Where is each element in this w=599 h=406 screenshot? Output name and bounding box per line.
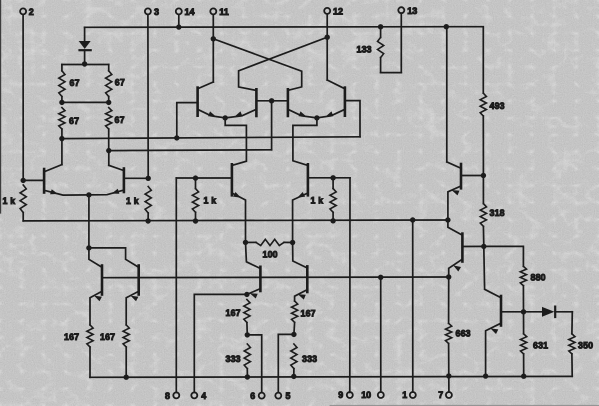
resistor 100 xyxy=(246,239,293,259)
wire Q7 emitter xyxy=(317,109,345,118)
wire input emitters to mirror xyxy=(88,195,90,248)
svg-text:1 k: 1 k xyxy=(204,196,217,206)
wire Q14 emitter xyxy=(448,186,461,220)
wire Q2 base xyxy=(124,177,148,179)
junction left column upper wire xyxy=(59,136,64,141)
svg-text:5: 5 xyxy=(286,391,291,401)
resistor 631 xyxy=(521,312,549,376)
resistor 167 Q13 xyxy=(292,301,316,334)
junction 333 right bus xyxy=(291,374,296,379)
wire Q16 base xyxy=(501,311,524,313)
svg-text:13: 13 xyxy=(407,6,417,16)
resistor 167 left xyxy=(64,325,93,377)
wire 67 ladder top rail xyxy=(62,64,109,66)
junction pin12 diagonal xyxy=(325,35,330,40)
svg-text:493: 493 xyxy=(490,101,505,111)
wire cross diagonal pin12 to Q5 collector xyxy=(239,37,328,90)
wire Q7 base riser xyxy=(345,101,360,137)
wire bottom bus xyxy=(90,375,572,378)
wire pin 1 riser xyxy=(412,220,414,392)
wire Q4 emitter xyxy=(198,109,226,118)
resistor 67 R1 xyxy=(59,65,80,103)
wire pin 5 tap xyxy=(278,334,294,392)
wire pin 7 stub xyxy=(448,376,450,392)
transistor Q8 (mid left) xyxy=(231,164,234,195)
wire right pair node to Q9 collector xyxy=(293,118,317,165)
wire Q11 collector xyxy=(89,248,139,267)
wire right column to Q2 collector xyxy=(109,151,124,171)
node input pair emitters xyxy=(86,192,91,197)
transistor Q4 (outer left) xyxy=(196,88,199,116)
resistor 133 xyxy=(357,27,402,73)
wire pin 4 tap xyxy=(194,294,247,392)
svg-text:167: 167 xyxy=(301,309,316,319)
transistor Q7 (outer right) xyxy=(344,88,347,116)
pin 10 terminal xyxy=(361,390,384,400)
svg-text:12: 12 xyxy=(333,7,343,17)
diode D2 xyxy=(524,307,573,317)
wire Q13 collector xyxy=(293,243,308,269)
wire upper long (ladder left to gate bases) xyxy=(62,137,360,139)
junction 333 left bus xyxy=(245,374,250,379)
wire Q9 emitter xyxy=(293,192,308,243)
svg-text:14: 14 xyxy=(185,7,195,17)
resistor 350 xyxy=(569,312,593,377)
wire Q11 emitter xyxy=(126,291,139,325)
svg-text:167: 167 xyxy=(100,332,115,342)
pin 1 terminal xyxy=(402,390,416,400)
resistor 67 R3 xyxy=(59,108,79,139)
diode D1 xyxy=(79,27,91,64)
junction mirror top xyxy=(86,245,91,250)
svg-text:67: 67 xyxy=(115,78,125,88)
junction 167 right bus xyxy=(124,375,129,380)
pin 12 terminal xyxy=(324,7,343,81)
junction 1k Q8 top xyxy=(193,175,198,180)
wire Q16 emitter xyxy=(486,323,501,376)
pin 9 terminal xyxy=(338,390,353,400)
pin 8 terminal xyxy=(165,391,179,401)
svg-text:6: 6 xyxy=(250,391,255,401)
pin 6 terminal xyxy=(250,391,265,401)
wire mid bus to Q15 collector xyxy=(448,220,463,235)
node left pair emitters xyxy=(223,115,228,120)
wire pin11 to Q4 collector xyxy=(198,82,214,89)
svg-text:333: 333 xyxy=(226,354,241,364)
transistor Q9 (mid right) xyxy=(307,164,310,195)
junction 167-333 right xyxy=(291,332,296,337)
wire V+ top bus xyxy=(85,26,447,29)
wire Q8 emitter xyxy=(232,192,246,242)
wire Q10 collector xyxy=(89,248,102,267)
junction 100 right xyxy=(290,240,295,245)
wire inner-base center riser xyxy=(271,101,273,150)
svg-text:663: 663 xyxy=(456,329,471,339)
resistor 1k far left xyxy=(3,185,27,221)
junction pin14-bus xyxy=(176,24,181,29)
svg-text:167: 167 xyxy=(64,332,79,342)
junction bias rail end xyxy=(446,274,451,279)
junction pin2 Q1 base xyxy=(21,178,26,183)
wire Q15 base xyxy=(462,245,483,247)
resistor 167 right xyxy=(100,325,129,377)
wire Q14 base xyxy=(461,175,483,177)
wire Q6 emitter xyxy=(288,109,317,118)
resistor 67 R2 xyxy=(106,65,125,103)
resistor 880 xyxy=(484,246,546,311)
junction Q4 riser on upper wire xyxy=(174,135,179,140)
svg-text:318: 318 xyxy=(490,208,505,218)
junction mid bus right end xyxy=(445,217,450,222)
wire left column to Q1 collector xyxy=(44,139,62,172)
transistor Q16 xyxy=(500,296,503,326)
svg-text:1 k: 1 k xyxy=(126,196,139,206)
wire pin 6 tap xyxy=(247,335,261,393)
wire ladder mid rung xyxy=(62,101,109,103)
junction right column lower wire xyxy=(106,148,111,153)
wire Q9 base to pin 9 xyxy=(308,178,350,393)
resistor 1k Q2 base xyxy=(126,187,151,222)
wire Q1 emitter xyxy=(44,189,89,195)
resistor 333 right xyxy=(291,344,317,376)
pin 14 terminal xyxy=(176,7,195,27)
junction 663 bus xyxy=(446,373,451,378)
pin 4 terminal xyxy=(191,391,206,401)
junction 1k Q9 mid-bus xyxy=(330,218,335,223)
svg-text:8: 8 xyxy=(165,391,170,401)
transistor Q5 (inner left) xyxy=(255,89,258,116)
wire V+ to Q14 collector xyxy=(447,27,461,169)
wire Q8 base to pin 8 xyxy=(176,178,232,392)
pin 3 terminal xyxy=(145,7,159,178)
junction 1k left mid-bus xyxy=(145,218,150,223)
junction pin1 mid bus xyxy=(410,217,415,222)
wire lower long (ladder right to inner bases) xyxy=(109,149,272,152)
wire 318 node to Q16 collector xyxy=(484,246,501,297)
junction rung right xyxy=(106,100,111,105)
resistor 67 R4 xyxy=(106,108,125,151)
junction rung left xyxy=(59,100,64,105)
svg-text:7: 7 xyxy=(438,390,443,400)
junction 1k Q8 mid-bus xyxy=(193,218,198,223)
junction 880 bottom xyxy=(521,309,526,314)
svg-text:350: 350 xyxy=(578,341,593,351)
junction 1k Q9 top xyxy=(330,175,335,180)
svg-text:9: 9 xyxy=(338,390,343,400)
wire bias rail xyxy=(102,276,449,279)
junction pin3 Q2 base xyxy=(146,176,151,181)
junction 493-318 node xyxy=(481,173,486,178)
svg-text:333: 333 xyxy=(302,354,317,364)
junction pin11 diagonal xyxy=(211,36,216,41)
junction 318 bottom node xyxy=(481,244,486,249)
node diode cathode xyxy=(82,61,87,66)
pin 2 terminal xyxy=(20,7,34,180)
svg-text:10: 10 xyxy=(361,390,371,400)
scan artifact left edge line xyxy=(0,0,2,213)
svg-text:1 k: 1 k xyxy=(3,196,16,206)
node right pair emitters xyxy=(314,115,319,120)
resistor 493 xyxy=(480,93,505,175)
junction 133 top bus xyxy=(378,24,383,29)
svg-text:2: 2 xyxy=(29,7,34,17)
svg-text:67: 67 xyxy=(70,78,80,88)
wire Q12 emitter xyxy=(247,289,261,299)
pin 5 terminal xyxy=(275,391,290,401)
resistor 167 Q12 xyxy=(226,300,251,335)
wire Q12 collector xyxy=(246,242,261,268)
junction inner bases center tap xyxy=(269,98,274,103)
junction Q12 emitter xyxy=(244,292,249,297)
transistor Q14 xyxy=(460,164,463,188)
transistor Q13 xyxy=(306,266,309,292)
transistor Q11 (mirror right) xyxy=(137,266,140,295)
wire cross diagonal pin11 to Q6 collector xyxy=(213,39,301,91)
junction bus right corner xyxy=(444,24,449,29)
wire Q1 base xyxy=(23,179,44,181)
wire Q10 emitter xyxy=(90,291,102,325)
wire Q5 emitter xyxy=(225,109,256,118)
wire Q4 base riser xyxy=(177,103,198,138)
svg-text:631: 631 xyxy=(533,341,548,351)
junction pin10 bias rail xyxy=(378,275,383,280)
resistor 1k Q9 base xyxy=(311,178,337,221)
pin 13 terminal xyxy=(398,6,417,73)
svg-text:67: 67 xyxy=(115,115,125,125)
junction Q16 emitter bus xyxy=(483,373,488,378)
resistor 1k Q8 base xyxy=(192,178,216,221)
wire left pair node to Q8 collector xyxy=(225,118,246,165)
wire mid bus xyxy=(23,219,448,222)
transistor Q12 xyxy=(259,267,262,291)
transistor Q1 (input left) xyxy=(43,169,46,193)
resistor 333 left xyxy=(226,344,251,377)
svg-text:1 k: 1 k xyxy=(311,196,324,206)
wire Q13 emitter xyxy=(295,290,308,301)
svg-text:100: 100 xyxy=(263,250,278,260)
svg-text:4: 4 xyxy=(201,391,206,401)
junction 167-333 left xyxy=(245,332,250,337)
svg-text:3: 3 xyxy=(154,7,159,17)
svg-text:1: 1 xyxy=(402,390,407,400)
wire Q2 emitter xyxy=(89,189,124,195)
transistor Q15 xyxy=(461,234,464,262)
resistor 663 xyxy=(446,277,471,376)
wire pin12 to Q7 collector xyxy=(327,80,345,89)
resistor 318 xyxy=(480,176,504,247)
svg-text:67: 67 xyxy=(69,116,79,126)
transistor Q2 (input right) xyxy=(123,169,126,193)
transistor Q10 (mirror left) xyxy=(101,266,104,295)
pin 7 terminal xyxy=(438,390,452,400)
scan artifact bottom edge xyxy=(330,404,599,406)
wire pin 10 riser xyxy=(380,277,382,392)
wire inner bases rung xyxy=(256,100,288,102)
pin 11 terminal xyxy=(210,7,228,82)
svg-text:880: 880 xyxy=(531,273,546,283)
svg-text:167: 167 xyxy=(226,308,241,318)
svg-text:133: 133 xyxy=(357,45,372,55)
junction 100 left xyxy=(243,240,248,245)
wire Q15 emitter xyxy=(449,259,463,277)
transistor Q6 (inner right) xyxy=(287,89,290,116)
wire supply loop to 493 xyxy=(446,27,483,94)
svg-text:11: 11 xyxy=(219,7,229,17)
junction 631 bus xyxy=(521,374,526,379)
